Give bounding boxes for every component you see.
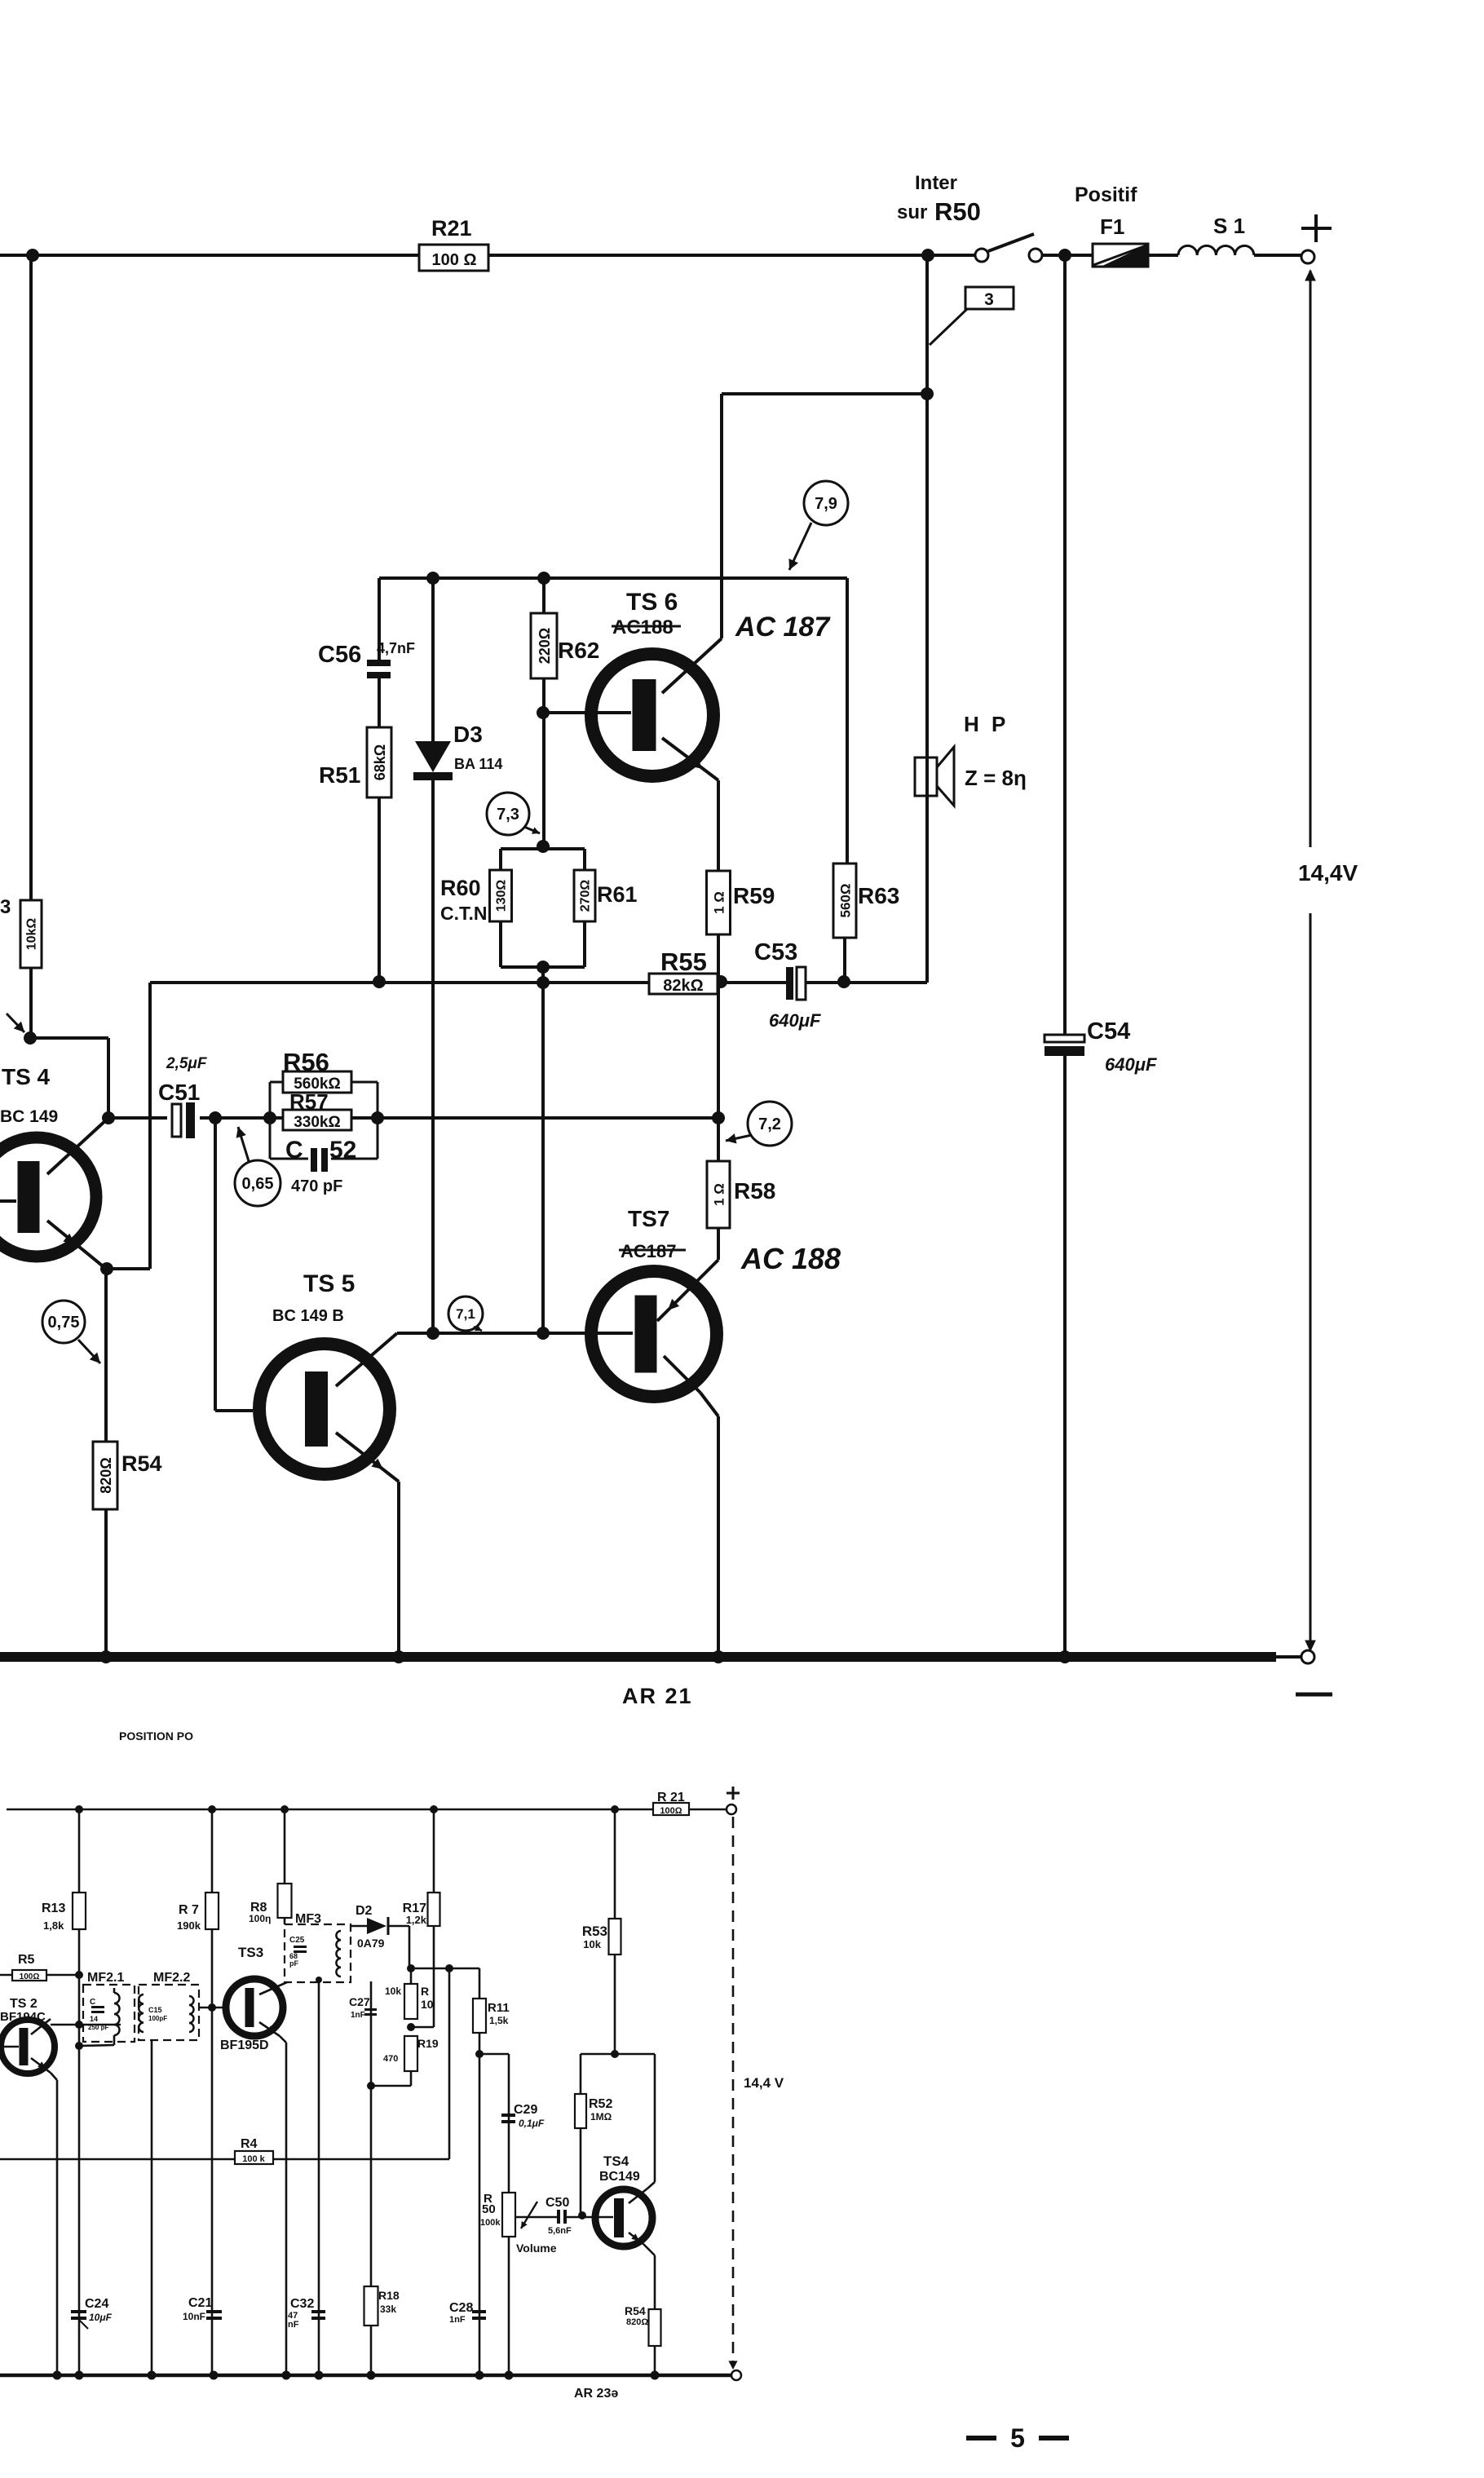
svg-text:R58: R58 [734,1178,775,1204]
svg-text:R60: R60 [440,876,481,900]
svg-text:R55: R55 [660,947,707,976]
svg-text:R51: R51 [319,762,360,788]
svg-text:270Ω: 270Ω [579,880,593,912]
svg-text:R62: R62 [558,638,599,663]
svg-text:5: 5 [1010,2423,1025,2453]
svg-text:10k: 10k [385,1985,401,1997]
svg-text:C54: C54 [1087,1018,1130,1045]
svg-text:TS 4: TS 4 [2,1064,51,1089]
svg-text:130Ω: 130Ω [495,880,509,912]
svg-text:68kΩ: 68kΩ [372,744,388,780]
svg-text:33k: 33k [380,2304,396,2315]
svg-text:560Ω: 560Ω [838,884,854,918]
svg-text:TS 5: TS 5 [303,1270,355,1297]
svg-text:Inter: Inter [915,172,957,194]
svg-text:640μF: 640μF [1105,1054,1157,1075]
svg-text:R13: R13 [42,1902,65,1915]
svg-text:TS4: TS4 [603,2153,629,2169]
svg-text:0,75: 0,75 [48,1314,80,1332]
svg-text:POSITION PO: POSITION PO [119,1729,193,1743]
svg-text:F1: F1 [1100,214,1124,239]
svg-text:TS7: TS7 [628,1206,669,1231]
svg-text:AC 188: AC 188 [740,1242,841,1275]
svg-text:1 Ω: 1 Ω [712,891,727,914]
svg-text:R18: R18 [378,2289,400,2302]
svg-text:1,5k: 1,5k [489,2015,509,2026]
svg-text:10μF: 10μF [89,2312,113,2323]
svg-text:640μF: 640μF [769,1010,821,1031]
svg-text:7,1: 7,1 [456,1306,475,1322]
svg-text:5,6nF: 5,6nF [548,2226,572,2236]
svg-text:AR 21: AR 21 [622,1684,693,1708]
svg-text:100Ω: 100Ω [20,1972,40,1981]
svg-text:C25: C25 [289,1936,305,1945]
svg-text:C24: C24 [85,2297,108,2311]
svg-text:C51: C51 [158,1080,200,1105]
svg-text:10: 10 [421,1998,434,2011]
svg-text:R19: R19 [417,2037,439,2050]
svg-text:1 Ω: 1 Ω [712,1183,727,1206]
svg-text:BF195D: BF195D [220,2038,269,2052]
svg-text:10k: 10k [583,1938,601,1950]
svg-text:0,1μF: 0,1μF [519,2118,545,2129]
svg-text:820Ω: 820Ω [626,2317,648,2327]
svg-text:R4: R4 [241,2137,258,2151]
svg-text:1nF: 1nF [351,2011,365,2020]
svg-text:1MΩ: 1MΩ [590,2111,612,2122]
svg-text:D2: D2 [356,1904,373,1918]
svg-text:820Ω: 820Ω [98,1457,114,1493]
svg-text:330kΩ: 330kΩ [294,1114,341,1131]
svg-text:TS 6: TS 6 [626,589,678,616]
svg-text:TS 2: TS 2 [10,1997,38,2011]
svg-text:R52: R52 [589,2097,612,2111]
svg-text:C21: C21 [188,2296,212,2310]
svg-text:4,7nF: 4,7nF [377,640,415,656]
svg-text:C56: C56 [318,642,361,668]
svg-text:Positif: Positif [1075,183,1137,206]
svg-text:0A79: 0A79 [357,1937,385,1950]
svg-text:10nF: 10nF [183,2311,205,2322]
svg-text:C53: C53 [754,939,797,965]
svg-text:14,4 V: 14,4 V [744,2075,784,2091]
svg-text:1,8k: 1,8k [43,1919,64,1932]
svg-text:470: 470 [383,2054,398,2064]
svg-text:S 1: S 1 [1213,214,1245,238]
svg-text:2,5μF: 2,5μF [166,1055,208,1072]
svg-text:R56: R56 [283,1048,329,1076]
svg-text:0,65: 0,65 [242,1175,274,1193]
svg-text:R 21: R 21 [657,1791,685,1804]
svg-text:7,3: 7,3 [497,806,519,824]
svg-text:52: 52 [329,1137,356,1164]
svg-text:TS3: TS3 [238,1945,263,1960]
svg-text:7,9: 7,9 [815,495,837,513]
svg-text:220Ω: 220Ω [537,628,553,664]
svg-text:nF: nF [288,2320,299,2330]
svg-text:R59: R59 [733,883,775,908]
svg-text:250 pF: 250 pF [88,2024,108,2031]
svg-text:190k: 190k [177,1919,201,1932]
svg-text:sur: sur [897,201,927,223]
svg-text:D3: D3 [453,722,483,747]
svg-text:H P: H P [964,712,1009,736]
svg-text:R54: R54 [121,1451,162,1476]
svg-text:470 pF: 470 pF [291,1177,342,1195]
svg-text:1,2k: 1,2k [406,1914,427,1926]
svg-text:3: 3 [0,896,11,918]
svg-text:1nF: 1nF [449,2315,466,2325]
svg-text:R63: R63 [858,883,899,908]
svg-text:R 7: R 7 [179,1903,199,1917]
svg-text:C: C [90,1998,95,2007]
svg-text:C28: C28 [449,2301,473,2315]
svg-text:BC 149 B: BC 149 B [272,1307,344,1325]
svg-text:BC 149: BC 149 [0,1107,58,1126]
svg-text:Volume: Volume [516,2242,557,2255]
svg-text:100 k: 100 k [242,2154,265,2164]
svg-text:100Ω: 100Ω [660,1806,682,1816]
svg-text:100pF: 100pF [148,2015,167,2022]
svg-text:R: R [421,1985,429,1998]
svg-text:7,2: 7,2 [758,1115,781,1133]
svg-text:BA 114: BA 114 [454,756,502,772]
svg-text:BC149: BC149 [599,2170,640,2184]
svg-text:R54: R54 [625,2304,646,2317]
svg-text:Z = 8η: Z = 8η [965,766,1027,790]
svg-text:AC 187: AC 187 [735,612,831,643]
svg-text:R50: R50 [934,197,981,226]
svg-text:100k: 100k [480,2218,501,2228]
svg-text:pF: pF [289,1959,298,1968]
svg-text:MF3: MF3 [295,1912,321,1926]
svg-text:C32: C32 [290,2297,314,2311]
svg-text:3: 3 [984,290,994,309]
svg-text:C29: C29 [514,2103,537,2117]
svg-text:100η: 100η [249,1913,271,1924]
svg-text:R5: R5 [18,1953,35,1967]
svg-text:C50: C50 [545,2196,569,2210]
svg-text:14: 14 [90,2015,98,2023]
svg-text:C15: C15 [148,2006,162,2014]
svg-text:10kΩ: 10kΩ [25,918,39,951]
svg-text:C.T.N: C.T.N [440,903,488,924]
svg-text:100 Ω: 100 Ω [432,251,477,269]
svg-text:82kΩ: 82kΩ [663,977,703,995]
svg-text:R21: R21 [431,216,472,241]
svg-text:R11: R11 [488,2001,510,2015]
svg-text:C: C [285,1137,303,1164]
svg-text:AR 23ə: AR 23ə [574,2387,618,2401]
svg-text:R53: R53 [582,1924,607,1939]
svg-text:50: 50 [482,2202,496,2216]
svg-text:14,4V: 14,4V [1298,860,1358,886]
svg-text:R61: R61 [597,882,638,907]
svg-text:MF2.1: MF2.1 [87,1971,124,1985]
svg-text:MF2.2: MF2.2 [153,1971,190,1985]
svg-text:C27: C27 [349,1995,370,2008]
